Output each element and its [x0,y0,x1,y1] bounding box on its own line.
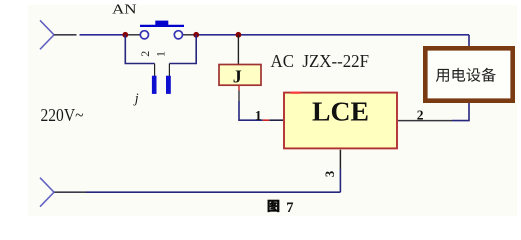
wire bottom rail [86,191,340,193]
junction dot left of button [122,32,128,38]
pushbutton AN cap [155,21,168,26]
wire pin1 into LCE [269,119,283,121]
load box (用电设备) [425,48,512,100]
wire junction to relay coil J [237,35,239,64]
wire pin2 from LCE to load box [398,120,452,122]
wire pin2 blue part up to load box [452,103,469,121]
wire pin3 from LCE bottom [339,150,341,169]
svg-text:1: 1 [255,109,262,124]
terminal top-left [40,20,54,49]
relay contact j left bar [152,76,157,94]
svg-text:AC JZX--22F: AC JZX--22F [271,51,370,71]
svg-text:3: 3 [323,171,337,177]
caption 图 7 [268,200,294,216]
wire top rail left segment [54,34,77,36]
wire red tick on pin1 wire [263,119,270,121]
pushbutton AN left terminal circle [140,31,148,39]
wire thin lead left contact [154,64,156,77]
junction dot right of button [193,32,199,38]
svg-text:2: 2 [138,51,152,57]
wire top rail right segment [183,34,197,36]
svg-text:1: 1 [153,51,167,57]
wire below J black segment [238,91,240,102]
char 电 [453,68,466,82]
wire top rail right blue part [196,34,469,36]
svg-text:220V~: 220V~ [41,105,84,125]
wire bottom rail dark part [54,191,86,193]
wire below J to pin 1 corner [239,101,263,120]
junction dot above relay coil J [236,32,242,38]
svg-text:J: J [233,66,242,86]
LCE box U1 [284,93,397,149]
wire top rail left blue part [80,34,126,36]
wire below J (red tick) [238,86,240,91]
wire right contact branch [169,35,196,64]
wire left contact branch [125,35,154,64]
relay coil box J [219,65,261,86]
svg-text:LCE: LCE [312,96,369,126]
label 用电设备 [436,68,496,82]
relay contact j right bar [166,76,171,94]
pushbutton AN bar [140,25,184,27]
char 图 [268,200,280,212]
wire thin lead right contact [168,64,170,77]
wire pin3 lower [339,169,341,192]
red tick on LCE top border [291,92,301,94]
svg-text:AN: AN [112,3,137,18]
svg-text:2: 2 [417,107,424,122]
wire stub junction to left circle [125,34,140,36]
terminal bottom-left [40,178,54,207]
pushbutton AN right terminal circle [174,31,182,39]
char 备 [482,68,496,82]
char 设 [467,68,481,82]
wire drop to load box [468,35,470,47]
char 用 [436,69,449,82]
svg-text:7: 7 [286,200,293,216]
